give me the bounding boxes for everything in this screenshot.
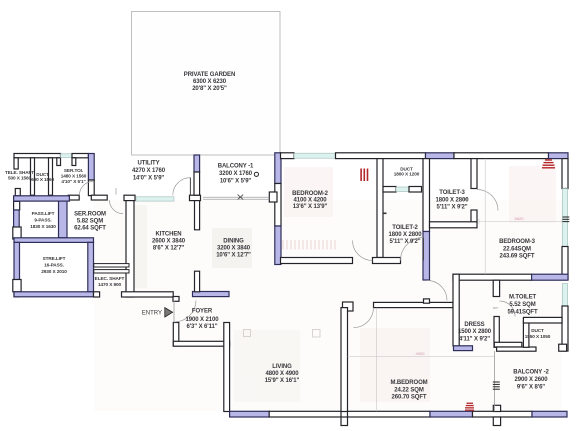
m.toilet divider lower [494,317,499,348]
white piece [281,153,295,159]
white mid [275,184,281,227]
svg-text:1830 X 1630: 1830 X 1630 [30,224,56,229]
svg-text:TOILET-3: TOILET-3 [439,190,465,196]
entry arrow [165,308,173,317]
svg-text:600 X 1560: 600 X 1560 [31,177,54,182]
svg-text:9'6" X 8'6": 9'6" X 8'6" [517,385,545,391]
left wall [173,323,179,347]
svg-text:ENTRY: ENTRY [142,310,162,316]
tick near kitchen cap [115,188,117,195]
balcony-2 left line [494,351,496,411]
svg-text:2900 X 2600: 2900 X 2600 [515,377,549,383]
toilet-2 right wall purple [423,232,430,281]
svg-text:M.BEDROOM: M.BEDROOM [390,380,427,386]
duct bottom left piece [383,187,396,193]
svg-text:5'11" X 9'2": 5'11" X 9'2" [389,239,420,245]
svg-text:1550 X 1050: 1550 X 1050 [525,334,551,339]
living / m.bedroom divider [341,308,348,412]
wall stre.lift bottom purple [14,292,94,297]
svg-text:6'3" X 6'11": 6'3" X 6'11" [186,324,217,330]
wall pass.lift left purple [14,210,20,238]
svg-text:2600 X 3840: 2600 X 3840 [152,239,186,245]
wall duct divider right [49,158,53,195]
wall below ser.toi right piece [91,195,107,200]
wall tele/duct top [14,154,61,158]
cross tail below [493,417,500,426]
toilet-2 right wall white [423,159,430,232]
right wall upper [471,159,477,189]
svg-text:LIVING: LIVING [272,364,292,370]
duct window [396,187,409,192]
svg-text:FOYER: FOYER [192,309,213,315]
window bedroom-2 top [294,153,336,158]
svg-text:UTILITY: UTILITY [138,161,160,167]
svg-text:24.22 SQM: 24.22 SQM [394,388,424,394]
dress left wall [453,274,459,346]
door m.toilet [500,301,515,317]
rail X mark [238,195,244,200]
elec shaft top wall [94,270,129,273]
wall pass.lift top purple [14,196,70,201]
living small tables [244,330,251,337]
right edge dark dashes [563,217,570,222]
svg-text:BALCONY -1: BALCONY -1 [218,164,254,170]
toilet-2 left wall [377,159,383,258]
white piece [454,153,549,159]
utility partition white [194,172,200,195]
white piece [336,153,426,159]
window ser.toi top [61,154,73,158]
red stack bedroom-3 [542,159,555,168]
svg-text:9-PASS.: 9-PASS. [34,218,51,223]
m.toilet divider upper [493,280,499,296]
entry notch [173,297,179,302]
svg-text:59.41SQFT: 59.41SQFT [507,310,538,316]
svg-text:BEDROOM-2: BEDROOM-2 [292,191,329,197]
door bedroom-3 [427,280,447,300]
svg-text:10'6" X 12'7": 10'6" X 12'7" [216,253,251,259]
svg-text:1500 X 2800: 1500 X 2800 [458,329,492,335]
svg-text:TOILET-2: TOILET-2 [392,225,418,231]
wall stub left lower [14,201,20,210]
wall stre.lift top purple [14,238,94,243]
svg-text:4270 X 1760: 4270 X 1760 [132,168,166,174]
svg-text:4900: 4900 [416,351,426,356]
rail T notch [269,192,277,202]
wall foyer top purple [193,292,230,297]
ser.room bottom wall [94,264,129,267]
svg-text:1480 X 1560: 1480 X 1560 [61,174,87,179]
svg-text:243.69 SQFT: 243.69 SQFT [500,254,535,260]
utility partition purple [194,155,200,172]
svg-text:4800 X 4900: 4800 X 4900 [266,371,300,377]
door utility [173,178,191,196]
svg-text:DRESS: DRESS [464,322,484,328]
svg-text:PRIVATE GARDEN: PRIVATE GARDEN [184,72,235,78]
wall stub right [57,158,61,166]
svg-text:14'0" X 5'9": 14'0" X 5'9" [133,176,165,182]
svg-text:4100 X 4200: 4100 X 4200 [294,198,328,204]
interior tint [94,200,562,411]
svg-text:STRE.LIFT: STRE.LIFT [43,256,66,261]
svg-text:62.64 SQFT: 62.64 SQFT [74,226,106,232]
svg-text:M.TOILET: M.TOILET [509,295,537,301]
svg-text:1800 X 1200: 1800 X 1200 [394,172,420,177]
svg-text:1470 X 900: 1470 X 900 [98,282,121,287]
purple upper [275,153,281,184]
wall stub white left mid [13,227,21,239]
bottom wall [173,341,229,346]
svg-text:1900 X 2100: 1900 X 2100 [186,317,220,323]
red stack m.bedroom [465,403,474,411]
svg-text:3200 X 1760: 3200 X 1760 [219,171,253,177]
svg-text:22.64SQM: 22.64SQM [503,247,531,253]
svg-text:PASS.LIFT: PASS.LIFT [32,211,55,216]
purple piece right [549,153,569,159]
red bars bedroom-2 [360,169,368,182]
door ser.toi [79,181,93,195]
private garden [132,12,281,156]
wall ser.toi right lower [88,180,94,196]
svg-text:500 X 1560: 500 X 1560 [8,175,31,180]
svg-text:5.82 SQM: 5.82 SQM [77,219,103,225]
duct bottom right piece [409,187,422,193]
circle balcony-1 [254,172,258,176]
svg-text:16-PASS.: 16-PASS. [44,263,64,268]
balcony-1 rail [203,196,269,198]
wall duct divider left [31,158,35,195]
wall ser.toi top [72,154,88,158]
wardrobe stripes bedroom-2 [283,240,335,250]
m.toilet bottom wall [494,342,522,347]
svg-text:1800 X 2800: 1800 X 2800 [436,198,470,204]
wall stre.lift left purple [14,242,20,296]
svg-text:DUCT: DUCT [36,172,49,177]
svg-text:10'6" X 5'9": 10'6" X 5'9" [220,179,252,185]
dress window purple [454,346,473,351]
door toilet-3 [477,190,498,211]
m.toilet bottom wall lower step [497,347,536,351]
furniture ghosts [134,166,556,402]
wall stub left [14,158,18,169]
purple lower [275,226,281,265]
door toilet-2 [401,238,424,261]
svg-text:8'6" X 12'7": 8'6" X 12'7" [153,246,185,252]
svg-text:15'9" X 16'1": 15'9" X 16'1" [265,378,300,384]
svg-text:KITCHEN: KITCHEN [156,232,182,238]
kitchen left wall [126,201,134,297]
door bedroom-2 [353,241,373,261]
svg-text:4'11" X 9'2": 4'11" X 9'2" [459,337,490,343]
wall below ser.toi left piece [68,195,79,200]
wall ser.toi right purple [88,154,94,181]
svg-text:DUCT: DUCT [531,328,544,333]
duct-3 foot [559,344,567,351]
purple part [532,274,568,280]
svg-text:5620: 5620 [515,216,525,221]
svg-text:ELEC. SHAFT: ELEC. SHAFT [95,276,125,281]
door ser.room [109,200,123,214]
svg-text:4'10" X 5'1": 4'10" X 5'1" [61,179,85,184]
svg-text:2930 X 2010: 2930 X 2010 [41,269,67,274]
wall stub ser.toi left [72,158,76,166]
window right m.toilet [562,284,567,307]
bottom wall [430,222,478,228]
wall stub left lower2 [15,189,20,196]
wall stub white left low [13,280,21,292]
svg-text:SER.TOI.: SER.TOI. [64,168,83,173]
divider tail below bottom wall [341,417,348,426]
toilet-2 door tick [383,213,387,215]
door m.bedroom [354,308,374,328]
duct-3 left wall [523,321,529,347]
svg-text:3200 X 3840: 3200 X 3840 [217,246,251,252]
right wall (foyer+living left) [224,323,230,412]
svg-text:DINING: DINING [223,239,244,245]
svg-text:6300 X 6230: 6300 X 6230 [193,79,227,85]
door notch [424,299,430,303]
kitchen/dining divider upper [195,201,200,230]
purple piece [426,153,455,159]
wall pass.lift right purple [59,201,68,238]
kitchen/dining divider lower [195,271,200,292]
svg-text:BALCONY -2: BALCONY -2 [513,370,549,376]
svg-text:1800 X 2800: 1800 X 2800 [389,232,423,238]
right wall lower [471,210,477,222]
svg-text:SER.ROOM: SER.ROOM [74,212,106,218]
svg-text:20'8" X 20'5": 20'8" X 20'5" [192,86,227,92]
svg-text:13'6" X 13'9": 13'6" X 13'9" [293,204,328,210]
wall kitchen top cap [124,195,135,200]
wall utility T-cap [190,195,201,200]
svg-text:BEDROOM-3: BEDROOM-3 [499,239,536,245]
balcony-2 dark dashes [493,382,500,389]
svg-text:5.52 SQM: 5.52 SQM [509,302,535,308]
wall stre.lift right purple [88,242,94,291]
svg-text:5'11" X 9'2": 5'11" X 9'2" [436,205,467,211]
svg-text:TELE. SHAFT: TELE. SHAFT [5,170,34,175]
wall cap right of stre.lift [94,292,100,297]
wall foyer-line white [122,292,174,297]
window kitchen top [136,197,174,201]
duct-3 top wall [523,317,562,323]
window right bedroom-3 [562,189,567,247]
cross stub above [493,405,500,411]
svg-text:260.70 SQFT: 260.70 SQFT [392,395,427,401]
door foyer entry [173,301,175,323]
